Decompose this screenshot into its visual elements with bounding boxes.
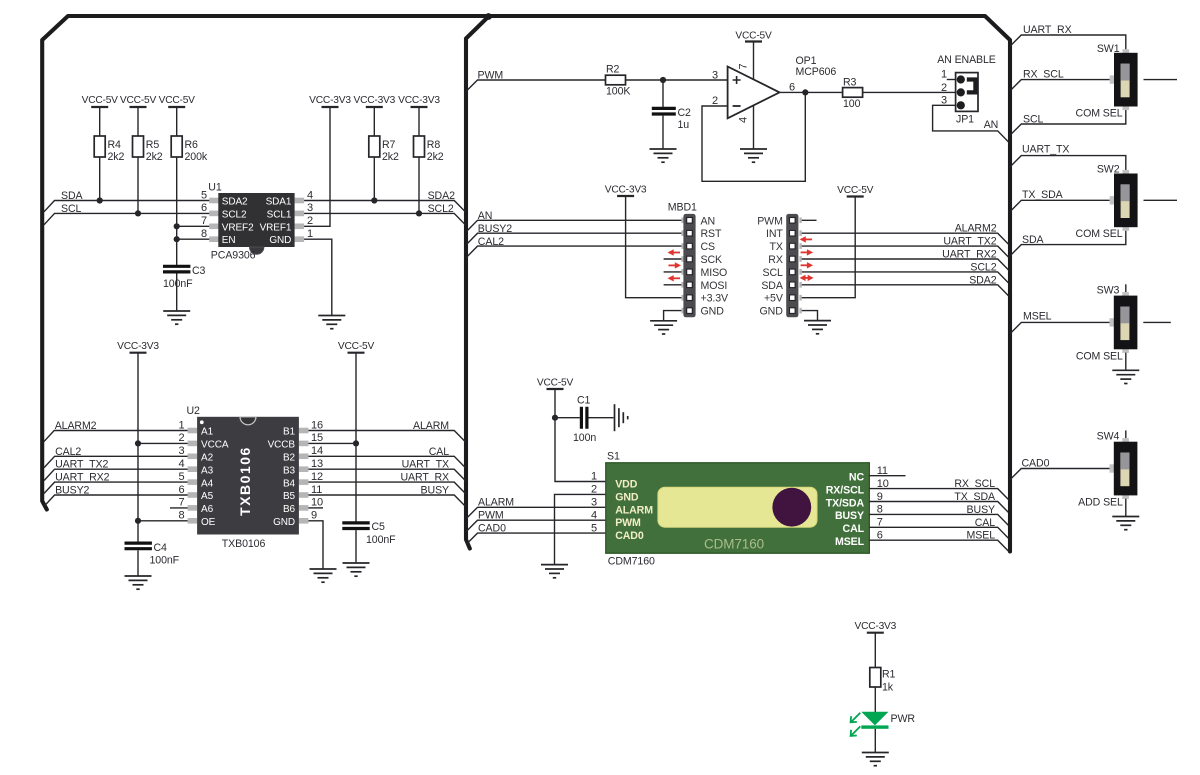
svg-text:COM SEL: COM SEL — [1076, 108, 1123, 120]
wire SW4 top stub — [1125, 430, 1127, 438]
svg-text:VCC-3V3: VCC-3V3 — [117, 341, 159, 352]
wire VCC to R7 — [373, 107, 375, 136]
net VCC-5V (R5) — [120, 95, 157, 107]
junction R8/SCL2 — [416, 210, 422, 216]
resistor R7 2k2 — [369, 136, 399, 163]
jumper JP1 AN ENABLE — [937, 54, 996, 126]
wire VCC to R5 — [137, 107, 139, 136]
svg-text:UART_RX: UART_RX — [1023, 24, 1072, 36]
wire R6 down to C3 — [176, 157, 178, 266]
svg-text:C1: C1 — [577, 395, 591, 407]
wire MOSI stub — [664, 284, 682, 286]
svg-text:VCCA: VCCA — [201, 440, 229, 451]
svg-text:PWR: PWR — [891, 713, 916, 725]
red arrow TX (out) — [801, 249, 814, 255]
svg-text:BUSY: BUSY — [835, 510, 864, 522]
svg-text:VCC-3V3: VCC-3V3 — [309, 95, 351, 106]
wire VCC to R4 — [99, 107, 101, 136]
svg-text:1u: 1u — [678, 119, 690, 131]
svg-text:8: 8 — [201, 228, 207, 240]
svg-text:1: 1 — [307, 228, 313, 240]
svg-text:VCC-3V3: VCC-3V3 — [605, 185, 647, 196]
net VCC-5V (S1) — [537, 378, 574, 390]
wire TX/SDA pin9 to bus — [869, 502, 1009, 513]
svg-text:9: 9 — [311, 510, 317, 522]
svg-text:VCC-5V: VCC-5V — [735, 31, 772, 42]
svg-text:2: 2 — [307, 215, 313, 227]
wire A6 stub — [170, 507, 188, 509]
wire SCL from bus to SW1 bottom — [1010, 110, 1126, 135]
ground (op-amp) — [740, 149, 767, 162]
svg-text:10: 10 — [877, 478, 889, 490]
wire SCL — [44, 213, 210, 224]
svg-text:EN: EN — [222, 235, 236, 246]
wire C4 to ground — [137, 550, 139, 576]
wire ALARM2 — [44, 431, 188, 442]
wire +5V pin to VCC-5V — [800, 197, 856, 298]
svg-text:VCC-3V3: VCC-3V3 — [398, 95, 440, 106]
svg-text:8: 8 — [877, 504, 883, 516]
svg-text:BUSY: BUSY — [421, 485, 449, 497]
wire B6 stub — [308, 507, 323, 509]
svg-text:2k2: 2k2 — [382, 151, 399, 163]
svg-text:C4: C4 — [154, 542, 168, 554]
wire UART_TX2 — [44, 469, 188, 480]
junction R6/EN — [174, 236, 180, 242]
switch SW1 — [1110, 49, 1138, 110]
red arrow SCK (in) — [668, 249, 681, 255]
wire GND pin1 to ground — [304, 239, 332, 315]
svg-text:CAL: CAL — [843, 523, 865, 535]
wire VCC to R8 — [418, 107, 420, 136]
wire OE pin8 — [138, 520, 188, 522]
wire C2 to ground — [662, 116, 664, 149]
svg-text:TX: TX — [769, 241, 782, 253]
svg-text:VCC-3V3: VCC-3V3 — [353, 95, 395, 106]
svg-text:RX_SCL: RX_SCL — [954, 478, 995, 490]
red arrow SDA (bidir) — [800, 275, 814, 281]
svg-text:B6: B6 — [283, 504, 296, 515]
net VCC-5V (R4) — [82, 95, 119, 107]
wire UART_RX2 — [44, 482, 188, 493]
wire SW1 right stub — [1144, 79, 1178, 81]
wire CAD0 from bus to S1 — [466, 533, 606, 544]
svg-text:2: 2 — [591, 484, 597, 496]
red arrow MISO (out) — [669, 262, 682, 268]
svg-text:GND: GND — [760, 306, 784, 318]
capacitor C1 100n — [573, 395, 596, 445]
svg-text:PWM: PWM — [757, 215, 783, 227]
svg-text:UART_TX: UART_TX — [1022, 143, 1069, 155]
wire feedback loop pin2 — [702, 92, 805, 181]
ground (C5) — [343, 563, 370, 576]
svg-text:A6: A6 — [201, 504, 214, 515]
svg-text:B5: B5 — [283, 491, 296, 502]
net VCC-3V3 (R8) — [398, 95, 440, 107]
resistor R4 2k2 — [94, 136, 124, 163]
junction C1 — [552, 415, 558, 421]
wire INT to ALARM2 — [800, 233, 1009, 244]
svg-text:C5: C5 — [372, 521, 386, 533]
capacitor C5 100nF — [342, 521, 396, 546]
wire B5 BUSY to bus — [308, 495, 465, 507]
svg-text:MCP606: MCP606 — [796, 66, 837, 78]
wire SDA to SDA2 — [800, 285, 1009, 296]
svg-text:CAL: CAL — [975, 517, 996, 529]
ground (S1 GND) — [541, 565, 568, 578]
net VCC-3V3 (R7) — [353, 95, 395, 107]
svg-text:SDA: SDA — [761, 280, 784, 292]
wire SCK stub — [664, 258, 682, 260]
svg-text:A5: A5 — [201, 491, 214, 502]
wire UART_RX from bus to SW1 top — [1010, 35, 1126, 49]
svg-text:GND: GND — [269, 235, 291, 246]
svg-text:TXB0106: TXB0106 — [222, 538, 266, 550]
wire SW3 right stub — [1143, 321, 1171, 323]
wire LED to ground — [874, 729, 876, 753]
svg-text:A4: A4 — [201, 478, 214, 489]
svg-text:SW2: SW2 — [1097, 164, 1120, 176]
ground (header) — [804, 321, 831, 334]
wire RX/SCL pin10 to bus — [869, 489, 1009, 500]
svg-text:S1: S1 — [607, 451, 620, 463]
net VCC-3V3 (LED) — [854, 621, 896, 633]
svg-text:+3.3V: +3.3V — [701, 293, 730, 305]
wire MBD1 GND to ground — [664, 311, 682, 321]
svg-text:2: 2 — [941, 82, 947, 94]
wire JP1 pin1 stub — [947, 79, 956, 81]
wire VCCB to VCC-5V — [308, 442, 356, 444]
wire SW3 bottom to ground — [1125, 353, 1127, 371]
svg-text:CAD0: CAD0 — [1022, 457, 1050, 469]
svg-text:3: 3 — [712, 70, 718, 82]
svg-text:100K: 100K — [606, 86, 630, 98]
svg-text:VREF1: VREF1 — [260, 222, 292, 233]
svg-text:PCA9306: PCA9306 — [211, 250, 256, 262]
svg-text:C3: C3 — [192, 265, 206, 277]
svg-text:ALARM2: ALARM2 — [955, 223, 997, 235]
junction feedback/output — [802, 89, 808, 95]
svg-text:RST: RST — [701, 228, 723, 240]
svg-text:VCC-5V: VCC-5V — [120, 95, 157, 106]
svg-text:CDM7160: CDM7160 — [704, 537, 764, 552]
svg-text:B1: B1 — [283, 427, 296, 438]
wire SW3 top stub — [1125, 284, 1127, 292]
wire C1 to ac-ground — [589, 417, 614, 419]
wire SCL1 to bus (SCL2 net) — [304, 213, 466, 225]
wire PWM stub — [800, 219, 817, 221]
svg-text:R8: R8 — [427, 139, 441, 151]
wire VCC to pin7 — [753, 42, 755, 80]
ground (C3) — [163, 311, 190, 324]
wire VREF1 to VCC-3V3 — [304, 107, 330, 226]
net VCC-5V (U2) — [338, 341, 375, 353]
svg-text:6: 6 — [201, 202, 207, 214]
wire MSEL pin6 to bus — [869, 540, 1009, 551]
svg-text:7: 7 — [201, 215, 207, 227]
svg-text:4: 4 — [178, 458, 184, 470]
svg-text:GND: GND — [701, 306, 725, 318]
wire op-amp output to R3 — [780, 91, 843, 93]
svg-text:UART_RX2: UART_RX2 — [942, 249, 997, 261]
svg-text:C2: C2 — [678, 107, 692, 119]
svg-text:11: 11 — [877, 465, 888, 477]
wire VCC-3V3 down to C4 — [137, 353, 139, 542]
svg-text:200k: 200k — [185, 151, 208, 163]
svg-text:R7: R7 — [382, 139, 396, 151]
svg-text:6: 6 — [877, 530, 883, 542]
net VCC-5V (op-amp) — [735, 31, 772, 42]
svg-text:SDA2: SDA2 — [428, 190, 455, 202]
svg-text:14: 14 — [311, 445, 323, 457]
wire SDA from bus to SW2 bottom — [1010, 231, 1126, 256]
svg-text:3: 3 — [178, 445, 184, 457]
junction SCL/R5 — [135, 210, 141, 216]
wire to C1 — [555, 417, 580, 419]
wire VREF2 pin7 — [177, 225, 210, 227]
op-amp U1 MCP606 triangle — [728, 67, 780, 119]
svg-text:RX/SCL: RX/SCL — [826, 484, 865, 496]
wire VCC-3V3 to R1 — [874, 633, 876, 668]
wire R7 to SDA2 — [373, 157, 375, 201]
wire CAL2 from bus to MBD1 CS — [466, 246, 681, 258]
svg-text:SCL2: SCL2 — [428, 203, 454, 215]
svg-text:MISO: MISO — [701, 267, 728, 279]
wire C3 to ground — [176, 274, 178, 312]
svg-text:SCL1: SCL1 — [267, 209, 292, 220]
svg-text:COM SEL: COM SEL — [1076, 351, 1123, 363]
wire R2 to op-amp — [626, 79, 728, 81]
junction R7/SDA2 — [371, 197, 377, 203]
svg-text:CAD0: CAD0 — [615, 530, 644, 542]
svg-text:RX: RX — [768, 254, 783, 266]
svg-text:6: 6 — [178, 484, 184, 496]
svg-text:15: 15 — [311, 432, 323, 444]
svg-text:SDA2: SDA2 — [969, 274, 996, 286]
resistor R1 1k — [870, 668, 896, 694]
wire R8 to SCL2 — [418, 157, 420, 213]
resistor R3 100 — [843, 77, 863, 111]
svg-text:GND: GND — [615, 491, 639, 503]
svg-text:6: 6 — [789, 82, 795, 94]
svg-text:1: 1 — [941, 69, 947, 81]
svg-text:AN ENABLE: AN ENABLE — [937, 54, 996, 66]
wire PWM from bus to R2 — [466, 80, 605, 91]
svg-text:B3: B3 — [283, 465, 296, 476]
wire EN pin8 — [177, 238, 210, 240]
switch SW2 — [1110, 170, 1138, 231]
svg-text:10: 10 — [311, 497, 323, 509]
wire CAL pin7 to bus — [869, 527, 1009, 538]
ground (LED) — [862, 753, 889, 766]
ground (C4) — [125, 576, 152, 589]
resistor R2 100K — [606, 64, 631, 98]
svg-text:GND: GND — [273, 517, 295, 528]
wire VCC to R6 — [176, 107, 178, 136]
wire SW2 right stub — [1144, 199, 1178, 201]
svg-text:2: 2 — [178, 432, 184, 444]
svg-text:TX_SDA: TX_SDA — [1022, 189, 1064, 201]
svg-text:1: 1 — [591, 471, 597, 483]
svg-text:A1: A1 — [201, 427, 214, 438]
svg-text:VCC-5V: VCC-5V — [537, 378, 574, 389]
svg-text:A3: A3 — [201, 465, 214, 476]
wire VCCA pin2 — [138, 442, 188, 444]
svg-text:7: 7 — [877, 517, 883, 529]
junction VCC/VCCA — [135, 440, 141, 446]
net VCC-3V3 (U2) — [117, 341, 159, 353]
capacitor C3 100nF — [163, 265, 206, 290]
net VCC-5V (R6) — [159, 95, 196, 107]
wire SCL to SCL2 — [800, 272, 1009, 283]
wire NC stub pin11 — [869, 475, 905, 477]
wire B3 UART_TX to bus — [308, 469, 465, 481]
svg-text:2k2: 2k2 — [146, 151, 163, 163]
svg-text:AN: AN — [984, 119, 999, 131]
svg-text:MSEL: MSEL — [835, 536, 865, 548]
svg-text:ALARM: ALARM — [413, 420, 449, 432]
wire UART_TX from bus to SW2 top — [1010, 156, 1126, 171]
ground (SW4) — [1112, 517, 1139, 530]
svg-text:MSEL: MSEL — [967, 530, 996, 542]
svg-text:VCC-5V: VCC-5V — [338, 341, 375, 352]
svg-text:VDD: VDD — [615, 479, 638, 491]
svg-text:CDM7160: CDM7160 — [608, 556, 655, 568]
svg-text:AN: AN — [701, 215, 716, 227]
svg-text:NC: NC — [849, 472, 865, 484]
svg-text:UART_TX2: UART_TX2 — [943, 236, 996, 248]
svg-text:4: 4 — [737, 117, 749, 123]
wire pin4 to ground — [753, 106, 755, 150]
svg-text:SW1: SW1 — [1097, 43, 1120, 55]
wire CAL2 — [44, 456, 188, 467]
svg-text:VREF2: VREF2 — [222, 222, 254, 233]
svg-text:CS: CS — [701, 241, 716, 253]
wire R3 to JP1 pin2 — [863, 91, 956, 93]
svg-text:100: 100 — [843, 98, 861, 110]
svg-text:PWM: PWM — [615, 517, 641, 529]
connector MBD1 — [668, 202, 697, 318]
wire R5 to SCL — [137, 157, 139, 213]
svg-text:MBD1: MBD1 — [668, 202, 697, 214]
junction dot top bus — [485, 13, 492, 20]
svg-text:3: 3 — [307, 202, 313, 214]
junction VCC/OE — [135, 518, 141, 524]
module S1 CDM7160 — [606, 451, 870, 568]
svg-text:100n: 100n — [573, 432, 596, 444]
svg-text:B2: B2 — [283, 453, 296, 464]
ground (C2) — [650, 149, 677, 162]
svg-text:UART_RX: UART_RX — [400, 472, 449, 484]
svg-text:B4: B4 — [283, 478, 296, 489]
wire VCC-3V3 to +3.3V pin — [626, 196, 682, 298]
wire C5 to ground — [355, 530, 357, 563]
capacitor C2 1u — [652, 107, 691, 131]
inner bus outline middle — [466, 17, 489, 549]
red arrow INT (in) — [800, 236, 813, 242]
switch SW4 — [1110, 438, 1138, 499]
svg-text:16: 16 — [311, 419, 323, 431]
wire RX_SCL from bus to SW1 — [1010, 80, 1110, 91]
svg-text:13: 13 — [311, 458, 323, 470]
wire B1 ALARM to bus — [308, 431, 465, 443]
svg-text:SCL2: SCL2 — [970, 261, 996, 273]
svg-text:A2: A2 — [201, 453, 214, 464]
IC U1 PCA9306 — [208, 182, 304, 262]
ground (U1 pin1) — [318, 316, 345, 329]
svg-text:MOSI: MOSI — [701, 280, 728, 292]
svg-text:5: 5 — [591, 522, 597, 534]
svg-text:U2: U2 — [187, 405, 201, 417]
svg-text:TXB0106: TXB0106 — [237, 446, 253, 516]
resistor R5 2k2 — [133, 136, 163, 163]
wire BUSY pin8 to bus — [869, 514, 1009, 525]
wire CAD0 from bus to SW4 — [1010, 469, 1110, 480]
svg-text:2k2: 2k2 — [108, 151, 125, 163]
wire AN from bus to MBD1 — [466, 220, 681, 232]
svg-text:VCCB: VCCB — [268, 440, 296, 451]
svg-text:RX_SCL: RX_SCL — [1023, 69, 1064, 81]
svg-text:R2: R2 — [606, 64, 620, 76]
wire MSEL from bus to SW3 — [1010, 322, 1110, 333]
wire SDA1 to bus (SDA2 net) — [304, 201, 466, 213]
svg-text:100nF: 100nF — [366, 534, 396, 546]
LED PWR (green) — [851, 712, 889, 736]
svg-text:SCL: SCL — [762, 267, 783, 279]
wire RX to UART_RX2 — [800, 259, 1009, 270]
svg-text:TX/SDA: TX/SDA — [826, 497, 865, 509]
wire to C2 — [662, 80, 664, 107]
svg-text:SCK: SCK — [701, 254, 723, 266]
svg-text:MSEL: MSEL — [1023, 311, 1052, 323]
junction VCCB — [353, 440, 359, 446]
net VCC-3V3 (MBD1) — [605, 185, 647, 197]
svg-text:VCC-5V: VCC-5V — [159, 95, 196, 106]
svg-text:VCC-5V: VCC-5V — [82, 95, 119, 106]
svg-text:7: 7 — [737, 63, 749, 69]
svg-text:4: 4 — [591, 509, 597, 521]
svg-text:8: 8 — [178, 510, 184, 522]
wire BUSY2 from bus to MBD1 RST — [466, 233, 681, 245]
svg-text:BUSY: BUSY — [967, 504, 995, 516]
ground (C1, rotated) — [615, 404, 628, 431]
svg-text:ADD SEL: ADD SEL — [1078, 497, 1123, 509]
ground (U2 GND) — [310, 569, 337, 582]
wire TX to UART_TX2 — [800, 246, 1009, 257]
wire MISO stub — [664, 271, 682, 273]
wire PWM from bus to S1 — [466, 520, 606, 531]
svg-text:R1: R1 — [882, 669, 896, 681]
svg-text:SCL2: SCL2 — [222, 209, 247, 220]
wire GND pin2 to ground — [555, 494, 606, 564]
svg-text:3: 3 — [591, 497, 597, 509]
red arrow MOSI (in) — [668, 275, 681, 281]
junction R6/VREF2 — [174, 223, 180, 229]
svg-text:9: 9 — [877, 491, 883, 503]
wire header GND to ground — [800, 311, 818, 321]
wire B2 CAL to bus — [308, 456, 465, 468]
wire TX_SDA from bus to SW2 — [1010, 200, 1110, 211]
red arrow RX (out) — [801, 262, 814, 268]
svg-text:R4: R4 — [108, 139, 122, 151]
svg-text:VCC-3V3: VCC-3V3 — [854, 621, 896, 632]
svg-text:R5: R5 — [146, 139, 160, 151]
svg-text:CAL: CAL — [429, 446, 450, 458]
resistor R8 2k2 — [414, 136, 444, 163]
ground (SW3) — [1112, 370, 1139, 383]
wire SDA — [44, 201, 210, 212]
svg-text:SW3: SW3 — [1097, 284, 1120, 296]
